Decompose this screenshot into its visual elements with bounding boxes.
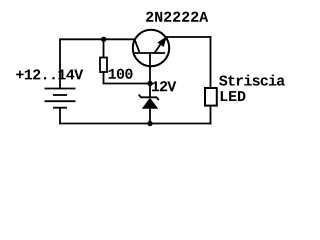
transistor Q1 collector lead	[135, 39, 140, 52]
label Striscia	[219, 75, 285, 86]
wire right vertical (down to LED strip)	[210, 36, 212, 88]
node junction on top rail	[101, 37, 106, 42]
label +12..14V (battery value)	[16, 69, 83, 79]
label 2N2222A (transistor type)	[146, 12, 208, 22]
zener diode D1 anode triangle	[142, 98, 158, 109]
wire bottom rail	[59, 123, 211, 125]
node junction base/zener	[147, 81, 152, 86]
wire LED strip to bottom rail	[210, 106, 212, 125]
wire rail to resistor R1	[103, 39, 105, 57]
battery B1	[45, 89, 76, 108]
wire transistor base down to node	[149, 53, 151, 84]
resistor R1 body	[100, 58, 107, 73]
wire resistor R1 bottom to zener node	[104, 72, 151, 84]
zener diode D1 lead from node	[149, 84, 151, 98]
node junction on bottom rail	[147, 121, 152, 126]
wire battery - to bottom rail	[59, 108, 61, 125]
zener diode D1 cathode bar with zener ticks	[139, 95, 159, 100]
wire left vertical (rail down to battery +)	[59, 38, 61, 88]
LED strip load body	[205, 88, 217, 106]
transistor Q1 emitter lead with arrow	[155, 40, 164, 53]
wire zener anode to bottom rail	[149, 109, 151, 124]
wire emitter to right vertical	[165, 36, 212, 38]
wire top-left rail (battery + to transistor collector)	[60, 38, 136, 40]
transistor Q1 base bar	[134, 52, 165, 54]
label LED	[221, 91, 246, 101]
transistor Q1 body circle	[133, 30, 169, 66]
label 12V (zener value)	[152, 81, 176, 91]
label 100 (resistor value)	[109, 69, 133, 79]
